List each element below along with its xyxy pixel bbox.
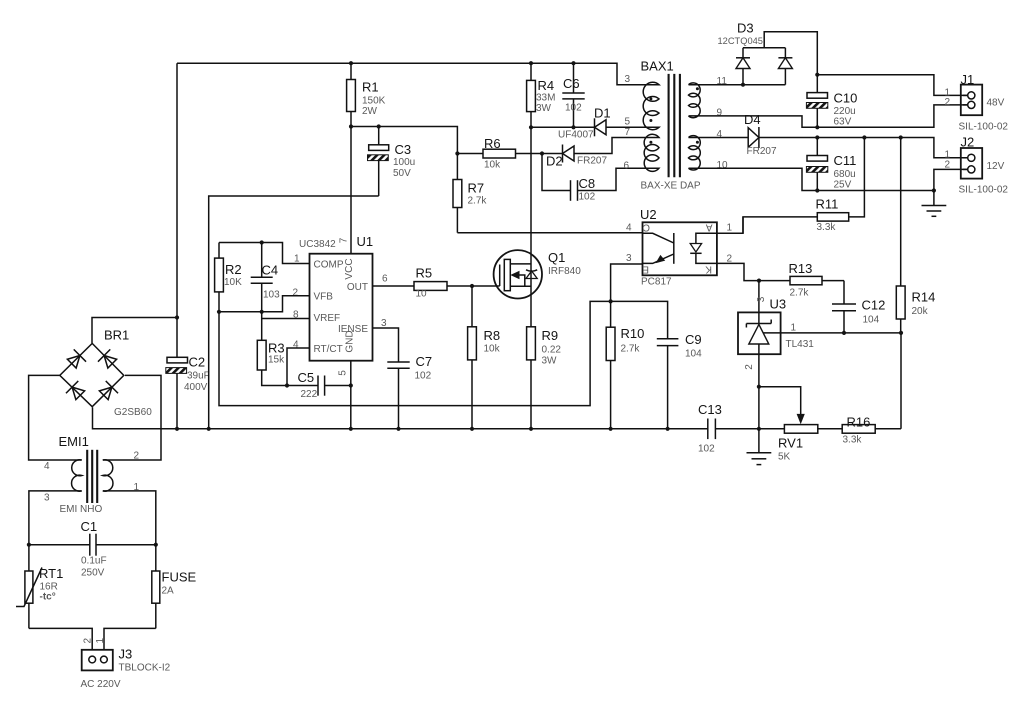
svg-text:U2: U2	[640, 207, 657, 222]
resistor R3	[257, 312, 287, 386]
svg-text:GND: GND	[345, 330, 356, 352]
ic U3 TL431	[738, 281, 814, 370]
junction	[285, 383, 289, 387]
svg-text:7: 7	[625, 127, 631, 138]
resistor R2	[215, 243, 243, 312]
fuse FUSE	[152, 545, 197, 629]
resistor R6	[457, 136, 562, 171]
svg-text:FR207: FR207	[747, 146, 777, 157]
junction	[862, 135, 866, 139]
resistor R16	[842, 415, 875, 446]
diode D2	[546, 138, 651, 169]
svg-text:J1: J1	[961, 72, 975, 87]
svg-text:R11: R11	[816, 197, 839, 212]
resistor R13	[759, 261, 844, 299]
svg-text:A: A	[706, 221, 713, 232]
svg-text:220u: 220u	[834, 106, 856, 117]
svg-text:J2: J2	[961, 135, 975, 150]
junction	[899, 331, 903, 335]
junction	[529, 125, 533, 129]
capacitor C12	[832, 281, 885, 333]
svg-text:0.1uF: 0.1uF	[81, 556, 107, 567]
svg-text:10k: 10k	[484, 344, 501, 355]
svg-text:9: 9	[717, 108, 723, 119]
svg-text:104: 104	[863, 315, 880, 326]
svg-text:R9: R9	[542, 328, 559, 343]
svg-text:D2: D2	[546, 154, 563, 169]
svg-text:400V: 400V	[184, 382, 208, 393]
resistor R7	[453, 154, 487, 233]
svg-text:2.7k: 2.7k	[790, 288, 810, 299]
capacitor C9	[611, 301, 703, 428]
svg-text:20k: 20k	[912, 306, 929, 317]
junction	[349, 124, 353, 128]
resistor R10	[606, 301, 644, 428]
svg-text:R3: R3	[268, 341, 285, 356]
svg-text:R1: R1	[362, 80, 379, 95]
winding polarity dots	[649, 87, 699, 143]
connector J1	[945, 72, 1009, 133]
diode D1	[558, 106, 651, 141]
junction	[377, 124, 381, 128]
svg-text:2.7k: 2.7k	[621, 344, 641, 355]
inductor EMI1	[44, 434, 140, 515]
wire to J2 pin2	[934, 169, 968, 190]
svg-text:C5: C5	[298, 370, 315, 385]
svg-text:-tc°: -tc°	[40, 592, 56, 603]
wire U1 pin5 GND	[350, 361, 352, 429]
svg-text:1: 1	[727, 223, 733, 234]
svg-text:102: 102	[698, 444, 715, 455]
svg-text:102: 102	[565, 103, 582, 114]
svg-text:R13: R13	[789, 261, 813, 276]
wire pin10 to secondary ground rail	[689, 168, 934, 190]
junction	[207, 427, 211, 431]
wire BR1 right AC	[103, 375, 161, 460]
svg-text:SIL-100-02: SIL-100-02	[959, 122, 1009, 133]
junction	[741, 83, 745, 87]
svg-text:0.22: 0.22	[542, 345, 562, 356]
svg-text:1: 1	[791, 323, 797, 334]
capacitor C13	[698, 402, 784, 455]
wire left HV vertical	[176, 63, 178, 317]
svg-text:2: 2	[945, 160, 951, 171]
ground secondary	[922, 191, 947, 217]
svg-text:R4: R4	[538, 78, 555, 93]
resistor R1	[347, 61, 386, 126]
wire U2 pin3	[611, 264, 643, 301]
wire U1 pin4 RT/CT	[287, 348, 310, 386]
svg-text:C8: C8	[579, 176, 596, 191]
svg-text:C: C	[643, 221, 650, 232]
transformer BAX1 secondary winding 4-10	[689, 136, 701, 170]
wire rail RV1 to R16	[818, 428, 842, 430]
potentiometer RV1 wiper	[759, 387, 818, 463]
svg-text:COMP: COMP	[314, 259, 344, 270]
svg-text:BAX-XE DAP: BAX-XE DAP	[641, 181, 701, 192]
wire U1 pin8 VREF	[262, 318, 310, 320]
resistor R5	[414, 266, 500, 300]
svg-text:R8: R8	[484, 328, 501, 343]
ic U1 UC3842	[293, 234, 389, 376]
wire U1 pin3 IENSE	[373, 328, 399, 362]
svg-text:C9: C9	[685, 332, 702, 347]
svg-text:TBLOCK-I2: TBLOCK-I2	[119, 663, 171, 674]
svg-text:R5: R5	[416, 266, 433, 281]
svg-text:C6: C6	[563, 76, 580, 91]
svg-text:FR207: FR207	[577, 156, 607, 167]
thermistor RT1	[16, 545, 63, 629]
svg-text:2A: 2A	[162, 586, 175, 597]
resistor R4	[527, 61, 556, 127]
wire U2 pin2 to R13 node	[717, 263, 759, 280]
resistor R11	[743, 138, 864, 234]
svg-text:U3: U3	[770, 297, 787, 312]
svg-text:3W: 3W	[542, 356, 558, 367]
svg-text:150K: 150K	[362, 96, 386, 107]
svg-text:15k: 15k	[268, 355, 285, 366]
svg-text:C10: C10	[834, 91, 858, 106]
svg-text:TL431: TL431	[786, 339, 815, 350]
svg-text:UF4007: UF4007	[558, 130, 594, 141]
svg-text:C12: C12	[862, 298, 886, 313]
wire C3 bottom to left drop	[209, 196, 379, 429]
svg-text:50V: 50V	[393, 168, 411, 179]
svg-text:4: 4	[293, 340, 299, 351]
bottom ground rail left	[93, 407, 708, 428]
resistor R14	[896, 138, 935, 333]
svg-text:RV1: RV1	[778, 436, 803, 451]
resistor R8	[468, 286, 501, 429]
svg-text:C7: C7	[416, 354, 433, 369]
wire 12V rail to J2 pin1	[759, 138, 968, 158]
junction	[349, 427, 353, 431]
svg-text:5: 5	[338, 370, 349, 376]
capacitor C6	[562, 61, 584, 127]
svg-text:D3: D3	[737, 21, 754, 36]
svg-text:33M: 33M	[536, 93, 555, 104]
junction	[842, 331, 846, 335]
svg-text:102: 102	[415, 371, 432, 382]
svg-text:EMI NHO: EMI NHO	[60, 504, 103, 515]
svg-text:100u: 100u	[393, 157, 415, 168]
svg-text:10: 10	[416, 289, 428, 300]
svg-text:12V: 12V	[987, 161, 1005, 172]
svg-text:5K: 5K	[778, 452, 791, 463]
connector J2	[945, 135, 1009, 196]
junction	[470, 427, 474, 431]
bridge BR1 G2SB60	[60, 328, 152, 419]
svg-text:R7: R7	[468, 181, 485, 196]
svg-text:C11: C11	[834, 153, 857, 168]
junction	[455, 151, 459, 155]
connector J3	[81, 638, 171, 691]
wire BR1 left AC	[29, 375, 82, 460]
capacitor C2	[166, 318, 210, 429]
svg-text:C4: C4	[262, 263, 279, 278]
svg-text:R14: R14	[912, 290, 936, 305]
svg-text:10K: 10K	[224, 277, 242, 288]
wire U3 pin2 down	[758, 354, 760, 429]
svg-text:UC3842: UC3842	[299, 239, 336, 250]
svg-text:C1: C1	[81, 519, 98, 534]
junction	[757, 385, 761, 389]
feedback wire VFB net	[219, 301, 611, 405]
svg-text:BAX1: BAX1	[641, 59, 674, 74]
junction	[571, 125, 575, 129]
svg-text:2.7k: 2.7k	[468, 196, 488, 207]
junction	[609, 427, 613, 431]
svg-text:6: 6	[624, 161, 630, 172]
svg-text:K: K	[705, 264, 712, 275]
wire pin9 to C10 rail	[689, 105, 968, 127]
svg-text:VREF: VREF	[314, 313, 341, 324]
svg-text:R16: R16	[847, 415, 871, 430]
junction	[470, 284, 474, 288]
svg-text:104: 104	[685, 349, 702, 360]
svg-text:3: 3	[44, 493, 50, 504]
svg-text:250V: 250V	[81, 568, 105, 579]
svg-text:2: 2	[134, 451, 140, 462]
svg-text:10: 10	[717, 160, 729, 171]
capacitor C5	[287, 370, 351, 400]
svg-text:680u: 680u	[834, 169, 856, 180]
svg-text:D4: D4	[744, 112, 761, 127]
svg-text:RT1: RT1	[39, 566, 63, 581]
svg-text:2: 2	[83, 638, 94, 644]
junction	[899, 135, 903, 139]
junction	[609, 299, 613, 303]
svg-text:222: 222	[301, 389, 318, 400]
svg-text:4: 4	[717, 129, 723, 140]
svg-text:3: 3	[625, 74, 631, 85]
svg-text:D1: D1	[594, 106, 611, 121]
transformer BAX1 secondary winding 11-9	[689, 83, 701, 118]
svg-text:4: 4	[626, 223, 632, 234]
diode D3 dual schottky	[718, 21, 818, 85]
svg-text:OUT: OUT	[347, 282, 368, 293]
svg-text:3: 3	[626, 253, 632, 264]
junction	[217, 310, 221, 314]
junction	[529, 427, 533, 431]
svg-text:48V: 48V	[987, 98, 1005, 109]
svg-text:PC817: PC817	[641, 277, 672, 288]
svg-text:7: 7	[339, 237, 350, 243]
wire U1 pin1 COMP	[219, 243, 310, 264]
transformer BAX1 primary winding 3-5	[643, 82, 659, 129]
junction	[757, 427, 761, 431]
wire R7 to U2 pin4	[457, 232, 642, 234]
svg-text:G2SB60: G2SB60	[114, 407, 152, 418]
transistor Q1 IRF840	[494, 127, 582, 326]
svg-text:102: 102	[579, 192, 596, 203]
svg-text:VFB: VFB	[314, 292, 334, 303]
svg-text:2: 2	[293, 288, 299, 299]
svg-text:E: E	[642, 264, 649, 275]
svg-text:3.3k: 3.3k	[817, 222, 837, 233]
junction	[815, 188, 819, 192]
junction	[175, 315, 179, 319]
svg-text:R10: R10	[621, 326, 645, 341]
junction	[815, 73, 819, 77]
wire drain node	[531, 126, 595, 128]
svg-text:2: 2	[945, 97, 951, 108]
svg-text:U1: U1	[357, 234, 374, 249]
junction	[757, 279, 761, 283]
wire drain-node to R6/R7 corner	[351, 127, 457, 154]
wire U1 pin6 OUT to gate	[373, 285, 415, 287]
svg-text:Q1: Q1	[548, 250, 565, 265]
svg-text:R6: R6	[484, 136, 501, 151]
junction	[540, 151, 544, 155]
svg-text:63V: 63V	[834, 117, 852, 128]
junction	[260, 240, 264, 244]
junction	[396, 427, 400, 431]
wire EMI pin1 to C1	[103, 491, 156, 545]
svg-text:10k: 10k	[484, 160, 501, 171]
svg-text:EMI1: EMI1	[59, 434, 89, 449]
svg-text:3.3k: 3.3k	[843, 435, 863, 446]
capacitor C11	[806, 138, 856, 191]
resistor R9	[527, 327, 562, 429]
wire U3 pin1 net	[781, 332, 901, 334]
wire U2 pin1 to R11	[717, 217, 743, 233]
junction	[666, 427, 670, 431]
svg-text:6: 6	[382, 274, 388, 285]
junction	[175, 427, 179, 431]
wire pin11	[689, 84, 786, 86]
junction	[349, 383, 353, 387]
svg-text:C13: C13	[698, 402, 722, 417]
svg-text:RT/CT: RT/CT	[314, 344, 343, 355]
capacitor C1	[29, 519, 156, 579]
capacitor C4	[251, 243, 280, 312]
transformer BAX1 core	[669, 74, 680, 177]
svg-text:C3: C3	[395, 142, 412, 157]
capacitor C10	[806, 75, 857, 128]
junction	[932, 188, 936, 192]
transformer BAX1 aux winding 7-6	[644, 134, 659, 171]
wire to J3	[29, 628, 92, 649]
svg-text:R2: R2	[225, 262, 242, 277]
junction	[815, 135, 819, 139]
wire rail R16 to R14 drop	[875, 428, 901, 430]
svg-text:103: 103	[263, 290, 280, 301]
wire 48V rail to J1 pin1	[817, 75, 967, 96]
ground primary-secondary	[747, 429, 772, 465]
wire to J3	[104, 628, 156, 649]
svg-text:3W: 3W	[536, 103, 552, 114]
wire top rail HV+	[177, 63, 651, 84]
optocoupler U2 PC817	[626, 207, 733, 288]
wire R14 bottom to rail corner	[900, 333, 902, 429]
svg-text:BR1: BR1	[104, 328, 129, 343]
svg-text:VCC: VCC	[344, 258, 355, 279]
svg-text:25V: 25V	[834, 180, 852, 191]
svg-text:12CTQ045: 12CTQ045	[718, 36, 763, 46]
junction	[260, 310, 264, 314]
svg-text:J3: J3	[119, 647, 133, 662]
svg-text:39uF: 39uF	[187, 371, 210, 382]
capacitor C3	[368, 127, 416, 197]
wire U1 pin7 VCC	[350, 127, 352, 254]
svg-text:FUSE: FUSE	[162, 570, 197, 585]
wire U1 pin2 VFB	[219, 296, 310, 312]
capacitor C8	[542, 154, 651, 203]
svg-text:SIL-100-02: SIL-100-02	[959, 185, 1009, 196]
svg-text:IRF840: IRF840	[548, 266, 581, 277]
junction	[27, 543, 31, 547]
junction	[815, 125, 819, 129]
svg-text:C2: C2	[189, 355, 206, 370]
svg-text:1: 1	[95, 638, 106, 644]
junction	[154, 543, 158, 547]
capacitor C7	[387, 354, 432, 429]
wire BR1 plus to left vertical	[92, 318, 177, 344]
wire EMI pin3 to C1	[29, 491, 82, 545]
svg-text:4: 4	[44, 461, 50, 472]
svg-text:3: 3	[756, 296, 767, 302]
diode D4	[689, 112, 777, 157]
svg-text:2W: 2W	[362, 106, 378, 117]
svg-text:AC 220V: AC 220V	[81, 679, 121, 690]
svg-text:2: 2	[744, 364, 755, 370]
